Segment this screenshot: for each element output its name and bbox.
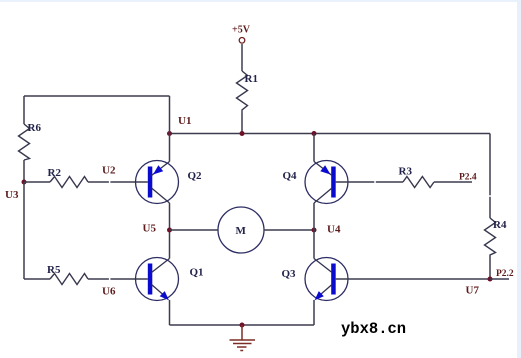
svg-text:U6: U6	[102, 286, 116, 298]
wire Q4 collector to node U4	[313, 203, 315, 230]
top bus wire U1	[170, 133, 491, 135]
wire top-left loop horizontal	[24, 95, 170, 97]
svg-text:R2: R2	[48, 167, 62, 179]
ground node dot	[240, 323, 245, 328]
svg-text:U4: U4	[327, 224, 341, 236]
svg-text:Q1: Q1	[190, 267, 204, 279]
wire Q3 emitter down	[313, 300, 315, 325]
top edge tint	[0, 0, 521, 2]
wire R3 to port P2.4	[434, 181, 472, 183]
node dot bus/Q2	[167, 131, 172, 136]
wire left rail lower	[23, 182, 25, 279]
pin gap on U6 wire	[109, 278, 111, 281]
transistor Q4	[305, 161, 348, 204]
node U3 dot	[22, 180, 27, 185]
svg-text:R1: R1	[245, 73, 258, 85]
svg-text:M: M	[236, 225, 247, 237]
wire R6 to node U3	[23, 160, 25, 182]
wire R1 to top bus	[241, 113, 243, 134]
node U5 dot	[167, 228, 172, 233]
node P2.2 dot	[488, 277, 493, 282]
bottom ground bus wire	[170, 324, 315, 326]
resistor R2	[50, 177, 88, 188]
svg-text:R3: R3	[399, 166, 413, 178]
resistor R4	[485, 218, 496, 256]
wire rail corner to R5	[24, 278, 50, 280]
wire U3 node to R2	[24, 181, 50, 183]
right edge tint	[517, 0, 521, 358]
transistor Q3	[305, 258, 348, 301]
+5V terminal circle	[239, 38, 245, 44]
node dot bus/R1	[240, 131, 245, 136]
svg-text:R6: R6	[28, 122, 42, 134]
transistor Q1	[136, 258, 179, 301]
ground symbol	[230, 325, 256, 351]
pin gap on U2 wire	[109, 181, 111, 184]
wire Q3 base to node P2.2	[336, 278, 490, 280]
wire Q2 collector to node U5	[169, 203, 171, 230]
motor M	[218, 207, 264, 253]
wire +5V to R1	[241, 44, 243, 71]
svg-text:U5: U5	[143, 223, 157, 235]
wire Q1 collector to node U5	[169, 230, 171, 259]
node U4 dot	[312, 228, 317, 233]
resistor R1	[237, 71, 248, 113]
resistor R3	[403, 177, 434, 188]
resistor R6	[19, 124, 30, 160]
svg-text:Q3: Q3	[282, 268, 297, 280]
node dot bus/Q4	[312, 131, 317, 136]
svg-text:U2: U2	[102, 165, 116, 177]
svg-text:U3: U3	[5, 189, 19, 201]
wire R2 to Q2 base	[88, 181, 148, 183]
wire R5 to Q1 base	[88, 278, 148, 280]
wire right rail from bus	[489, 134, 491, 219]
wire Q4 emitter to bus	[313, 134, 315, 162]
wire stub to port P2.2	[490, 278, 509, 280]
wire left rail upper	[23, 96, 25, 124]
svg-text:P2.4: P2.4	[459, 173, 477, 183]
pin gap on Q4 base wire	[374, 181, 376, 184]
svg-text:Q2: Q2	[188, 170, 203, 182]
svg-text:U1: U1	[178, 115, 191, 127]
pin gap on right rail	[489, 195, 492, 197]
svg-text:R5: R5	[47, 264, 61, 276]
svg-text:Q4: Q4	[283, 170, 298, 182]
svg-text:P2.2: P2.2	[496, 269, 514, 279]
svg-text:ybx8.cn: ybx8.cn	[341, 320, 406, 338]
wire Q4 base to R3	[336, 181, 403, 183]
wire U5 to motor	[170, 229, 219, 231]
wire loop down to bus	[169, 96, 171, 134]
wire R4 to node P2.2	[489, 256, 491, 279]
wire Q1 emitter down	[169, 300, 171, 325]
wire Q2 emitter to bus	[169, 134, 171, 162]
svg-text:+5V: +5V	[232, 25, 251, 36]
svg-text:R4: R4	[493, 219, 507, 231]
resistor R5	[50, 274, 88, 285]
transistor Q2	[136, 161, 179, 204]
wire Q3 collector to node U4	[313, 230, 315, 259]
wire motor to U4	[264, 229, 315, 231]
svg-text:U7: U7	[466, 285, 480, 297]
